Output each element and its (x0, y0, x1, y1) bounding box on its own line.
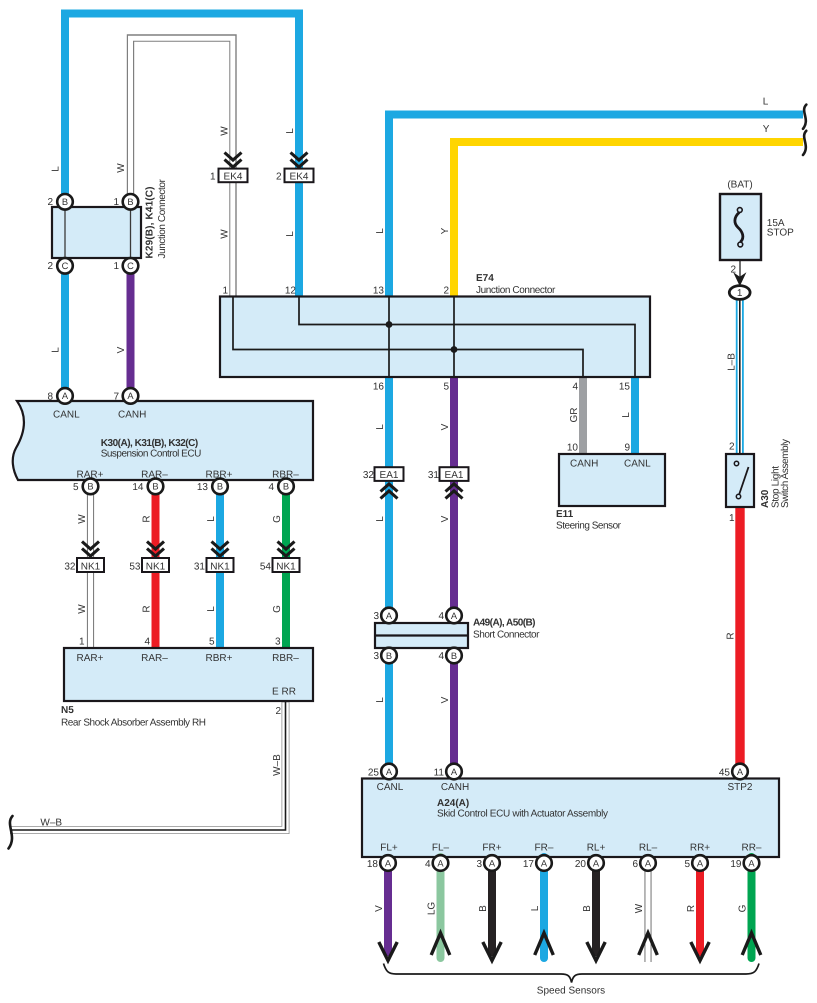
svg-text:R: R (726, 632, 737, 639)
svg-text:B: B (582, 905, 593, 912)
svg-text:STP2: STP2 (727, 782, 752, 793)
svg-text:V: V (440, 423, 451, 430)
svg-text:R: R (142, 605, 153, 612)
svg-text:STOP: STOP (767, 227, 794, 238)
svg-text:3: 3 (373, 611, 379, 622)
svg-text:18: 18 (367, 859, 379, 870)
svg-text:11: 11 (434, 767, 445, 778)
svg-text:E11: E11 (556, 509, 574, 520)
svg-text:K30(A), K31(B), K32(C): K30(A), K31(B), K32(C) (101, 438, 198, 449)
svg-text:N5: N5 (61, 705, 74, 716)
svg-text:1: 1 (729, 513, 735, 524)
svg-text:NK1: NK1 (276, 561, 296, 572)
svg-text:B: B (87, 482, 93, 492)
svg-text:W: W (77, 514, 88, 524)
svg-text:13: 13 (373, 286, 385, 297)
svg-text:3: 3 (373, 651, 379, 662)
svg-text:EK4: EK4 (290, 171, 309, 182)
svg-text:RR+: RR+ (690, 843, 710, 854)
svg-text:B: B (127, 197, 133, 207)
svg-text:Skid Control ECU with Actuator: Skid Control ECU with Actuator Assembly (437, 808, 608, 819)
svg-text:A: A (386, 767, 393, 777)
svg-text:1: 1 (113, 197, 119, 208)
svg-text:15: 15 (619, 382, 631, 393)
svg-text:A: A (385, 858, 392, 868)
svg-text:V: V (374, 905, 385, 912)
svg-text:A: A (62, 391, 69, 401)
svg-text:3: 3 (275, 637, 281, 648)
svg-text:Steering Sensor: Steering Sensor (556, 521, 622, 532)
svg-text:G: G (272, 515, 283, 523)
svg-text:A30: A30 (760, 489, 771, 508)
svg-text:4: 4 (438, 651, 444, 662)
svg-text:CANH: CANH (441, 782, 469, 793)
svg-text:NK1: NK1 (81, 561, 101, 572)
svg-text:CANH: CANH (118, 409, 146, 420)
svg-text:A: A (386, 611, 393, 621)
svg-text:54: 54 (260, 561, 272, 572)
svg-text:FR–: FR– (535, 843, 554, 854)
svg-text:V: V (440, 696, 451, 703)
svg-text:1: 1 (210, 171, 216, 182)
svg-text:L: L (763, 97, 769, 108)
svg-text:25: 25 (368, 767, 380, 778)
svg-text:V: V (116, 346, 127, 353)
svg-text:B: B (152, 482, 158, 492)
svg-text:1: 1 (113, 261, 119, 272)
svg-text:53: 53 (129, 561, 141, 572)
svg-text:RAR+: RAR+ (77, 470, 104, 481)
svg-text:A: A (451, 611, 458, 621)
svg-text:19: 19 (730, 859, 742, 870)
svg-text:W: W (77, 604, 88, 614)
svg-text:L: L (375, 228, 386, 234)
svg-text:A: A (127, 391, 134, 401)
svg-text:2: 2 (275, 706, 281, 717)
svg-text:FL–: FL– (432, 843, 450, 854)
svg-text:GR: GR (569, 408, 580, 423)
svg-text:(BAT): (BAT) (727, 180, 752, 191)
svg-text:1: 1 (79, 637, 85, 648)
svg-text:A: A (645, 858, 652, 868)
svg-text:CANL: CANL (624, 459, 651, 470)
svg-text:Junction Connector: Junction Connector (157, 178, 168, 258)
svg-text:2: 2 (47, 197, 53, 208)
svg-text:7: 7 (113, 392, 119, 403)
svg-text:Rear Shock Absorber Assembly R: Rear Shock Absorber Assembly RH (61, 718, 206, 729)
svg-text:Y: Y (763, 124, 770, 135)
svg-text:L–B: L–B (727, 353, 738, 371)
svg-text:CANH: CANH (570, 459, 598, 470)
svg-text:9: 9 (624, 443, 630, 454)
svg-text:L: L (530, 905, 541, 911)
svg-text:A: A (737, 767, 744, 777)
svg-text:C: C (62, 261, 69, 271)
svg-text:W: W (220, 229, 231, 239)
svg-text:4: 4 (425, 859, 431, 870)
svg-text:Y: Y (440, 227, 451, 234)
svg-text:10: 10 (567, 443, 579, 454)
svg-text:W: W (634, 903, 645, 913)
svg-text:E RR: E RR (272, 687, 296, 698)
svg-text:EK4: EK4 (224, 171, 243, 182)
svg-text:Junction Connector: Junction Connector (476, 285, 556, 296)
svg-text:A: A (437, 858, 444, 868)
svg-text:12: 12 (285, 286, 297, 297)
svg-text:32: 32 (64, 561, 76, 572)
svg-text:A: A (451, 767, 458, 777)
svg-text:5: 5 (73, 482, 79, 493)
svg-text:A: A (489, 858, 496, 868)
svg-text:K29(B), K41(C): K29(B), K41(C) (145, 187, 156, 259)
svg-text:RAR–: RAR– (141, 653, 168, 664)
svg-text:5: 5 (443, 382, 449, 393)
svg-text:Switch Assembly: Switch Assembly (780, 439, 791, 508)
svg-text:LG: LG (427, 902, 438, 916)
svg-text:W: W (220, 126, 231, 136)
svg-text:2: 2 (276, 171, 282, 182)
svg-text:3: 3 (476, 859, 482, 870)
svg-text:W: W (116, 163, 127, 173)
svg-text:L: L (206, 606, 217, 612)
svg-text:CANL: CANL (53, 409, 80, 420)
svg-text:R: R (686, 905, 697, 912)
svg-text:RAR+: RAR+ (77, 653, 104, 664)
svg-text:A: A (541, 858, 548, 868)
svg-text:A: A (748, 858, 755, 868)
svg-text:B: B (283, 482, 289, 492)
svg-text:5: 5 (209, 637, 215, 648)
svg-text:B: B (451, 651, 457, 661)
svg-text:FL+: FL+ (380, 843, 398, 854)
svg-text:2: 2 (729, 442, 735, 453)
svg-text:2: 2 (47, 261, 53, 272)
svg-text:B: B (478, 905, 489, 912)
svg-text:A49(A), A50(B): A49(A), A50(B) (473, 618, 536, 629)
svg-text:RL+: RL+ (587, 843, 606, 854)
svg-text:L: L (51, 166, 62, 172)
svg-text:5: 5 (684, 859, 690, 870)
svg-text:RBR–: RBR– (272, 653, 299, 664)
svg-text:L: L (285, 231, 296, 237)
svg-text:EA1: EA1 (445, 470, 464, 481)
svg-text:RL–: RL– (639, 843, 658, 854)
svg-text:RBR+: RBR+ (206, 470, 233, 481)
svg-text:B: B (217, 482, 223, 492)
svg-text:4: 4 (572, 382, 578, 393)
svg-text:4: 4 (144, 637, 150, 648)
svg-text:32: 32 (363, 470, 375, 481)
svg-text:14: 14 (132, 482, 144, 493)
svg-text:RBR–: RBR– (272, 470, 299, 481)
svg-text:13: 13 (197, 482, 209, 493)
svg-text:4: 4 (438, 611, 444, 622)
svg-text:2: 2 (443, 286, 449, 297)
svg-text:A: A (593, 858, 600, 868)
svg-text:2: 2 (730, 265, 736, 276)
svg-text:C: C (127, 261, 134, 271)
svg-text:20: 20 (575, 859, 587, 870)
svg-text:E74: E74 (476, 273, 494, 284)
svg-text:L: L (206, 516, 217, 522)
svg-text:17: 17 (523, 859, 535, 870)
svg-text:A24(A): A24(A) (437, 798, 469, 809)
svg-text:NK1: NK1 (146, 561, 166, 572)
svg-text:8: 8 (47, 392, 53, 403)
svg-text:L: L (375, 424, 386, 430)
svg-text:RBR+: RBR+ (206, 653, 233, 664)
svg-text:16: 16 (373, 382, 385, 393)
svg-text:L: L (375, 697, 386, 703)
svg-text:Short Connector: Short Connector (473, 630, 540, 641)
svg-text:4: 4 (268, 482, 274, 493)
svg-text:45: 45 (719, 767, 731, 778)
svg-text:EA1: EA1 (380, 470, 399, 481)
svg-text:A: A (697, 858, 704, 868)
svg-text:1: 1 (737, 288, 743, 299)
svg-text:B: B (62, 197, 68, 207)
svg-text:31: 31 (428, 470, 440, 481)
svg-text:Speed Sensors: Speed Sensors (537, 986, 605, 997)
svg-text:G: G (738, 904, 749, 912)
svg-text:W–B: W–B (272, 754, 283, 776)
svg-text:FR+: FR+ (482, 843, 501, 854)
svg-text:V: V (440, 515, 451, 522)
svg-text:W–B: W–B (40, 818, 62, 829)
svg-text:L: L (375, 516, 386, 522)
svg-text:31: 31 (194, 561, 206, 572)
svg-text:1: 1 (222, 286, 228, 297)
svg-text:G: G (272, 605, 283, 613)
svg-text:L: L (285, 128, 296, 134)
svg-text:L: L (621, 412, 632, 418)
svg-text:Suspension Control ECU: Suspension Control ECU (101, 449, 202, 460)
svg-text:RAR–: RAR– (141, 470, 168, 481)
svg-text:6: 6 (632, 859, 638, 870)
svg-text:R: R (142, 515, 153, 522)
svg-text:NK1: NK1 (210, 561, 230, 572)
svg-text:B: B (386, 651, 392, 661)
svg-text:L: L (51, 347, 62, 353)
svg-text:RR–: RR– (741, 843, 761, 854)
svg-text:CANL: CANL (377, 782, 404, 793)
